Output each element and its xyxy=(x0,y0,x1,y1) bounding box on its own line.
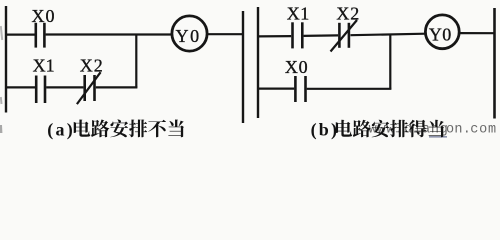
svg-text:X2: X2 xyxy=(336,3,360,23)
svg-text:X0: X0 xyxy=(32,6,56,26)
svg-text:X2: X2 xyxy=(80,55,104,75)
svg-text:(b): (b) xyxy=(311,120,340,141)
svg-text:(a): (a) xyxy=(47,120,75,141)
svg-text:on.: on. xyxy=(446,123,471,138)
svg-text:Y0: Y0 xyxy=(176,26,201,46)
svg-text:X1: X1 xyxy=(287,3,310,23)
svg-text:X0: X0 xyxy=(285,57,308,77)
svg-text:com: com xyxy=(470,123,497,138)
svg-text:Y0: Y0 xyxy=(429,24,452,44)
svg-text:X1: X1 xyxy=(33,55,55,75)
